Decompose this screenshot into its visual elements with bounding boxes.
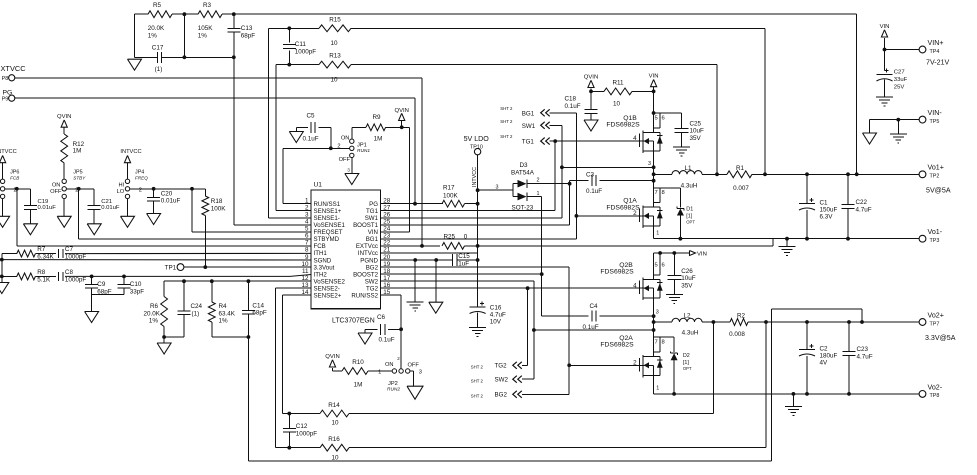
wire Vo2- rail bbox=[654, 392, 920, 396]
resistor R25 bbox=[442, 234, 468, 250]
wire R4 bottom to sense feed bbox=[212, 335, 251, 339]
capacitor C10 bbox=[118, 275, 145, 296]
resistor R4 bbox=[208, 279, 235, 337]
svg-text:0.007: 0.007 bbox=[733, 185, 749, 192]
svg-text:180uF: 180uF bbox=[820, 353, 838, 360]
svg-text:C15: C15 bbox=[458, 253, 470, 260]
svg-text:C25: C25 bbox=[690, 120, 702, 127]
svg-text:150uF: 150uF bbox=[820, 207, 838, 214]
wire C9 C10 bottoms bbox=[92, 295, 124, 312]
ground C25 bbox=[673, 147, 690, 156]
svg-text:TP5: TP5 bbox=[930, 119, 940, 125]
svg-text:0.1uF: 0.1uF bbox=[582, 324, 598, 331]
wire SW1 net bbox=[381, 125, 564, 218]
svg-text:R11: R11 bbox=[612, 79, 624, 86]
wire JP6 to FCB pin7 bbox=[5, 187, 311, 246]
svg-text:SHT 2: SHT 2 bbox=[471, 365, 484, 370]
wire PGND pin20 row bbox=[381, 258, 478, 262]
svg-text:Vo2+: Vo2+ bbox=[928, 311, 944, 319]
wire bottom border bbox=[248, 460, 771, 462]
wire Vo2+ rail bbox=[654, 320, 920, 324]
capacitor C18 bbox=[565, 96, 598, 121]
svg-text:C1: C1 bbox=[820, 200, 829, 207]
svg-text:SGND: SGND bbox=[314, 257, 332, 264]
svg-text:VIN: VIN bbox=[880, 24, 890, 30]
svg-text:RUN1: RUN1 bbox=[357, 148, 370, 154]
svg-text:[1]: [1] bbox=[686, 213, 692, 219]
svg-text:68pF: 68pF bbox=[252, 310, 267, 317]
svg-text:3: 3 bbox=[419, 370, 422, 376]
transistor Q1B FDS6982S bbox=[606, 113, 664, 153]
wire INTVCC to D3 bbox=[478, 184, 513, 190]
svg-text:SENSE1-: SENSE1- bbox=[314, 215, 340, 222]
svg-text:7: 7 bbox=[655, 190, 658, 196]
wire R15 to SENSE1- pin3 bbox=[269, 28, 311, 218]
svg-text:1: 1 bbox=[656, 230, 659, 236]
jumper JP5 bbox=[50, 170, 86, 199]
svg-text:ON: ON bbox=[52, 183, 61, 189]
svg-text:SHT 2: SHT 2 bbox=[500, 134, 513, 139]
svg-text:68pF: 68pF bbox=[241, 32, 256, 39]
wire top rail to Vo1+ bbox=[855, 14, 859, 176]
capacitor C13 bbox=[227, 12, 255, 59]
svg-text:C7: C7 bbox=[65, 246, 74, 253]
svg-text:R17: R17 bbox=[443, 184, 455, 191]
ground C26 bbox=[666, 295, 683, 304]
wire VIN- to TP5 bbox=[870, 118, 920, 122]
svg-text:0.1uF: 0.1uF bbox=[565, 103, 581, 110]
svg-text:SHT 2: SHT 2 bbox=[471, 393, 484, 398]
capacitor C15 bbox=[452, 253, 470, 268]
svg-text:SENSE2-: SENSE2- bbox=[314, 285, 340, 292]
svg-text:0.01uF: 0.01uF bbox=[161, 198, 181, 205]
ground C18 bbox=[584, 120, 598, 131]
svg-text:2: 2 bbox=[397, 356, 400, 361]
svg-text:R1: R1 bbox=[736, 165, 745, 172]
svg-text:1%: 1% bbox=[198, 32, 208, 39]
svg-text:Vo1+: Vo1+ bbox=[928, 164, 944, 172]
wire QVIN to VIN pin24 bbox=[381, 127, 410, 232]
svg-text:SHT 2: SHT 2 bbox=[500, 106, 513, 111]
svg-text:C23: C23 bbox=[857, 346, 869, 353]
svg-text:R25: R25 bbox=[444, 234, 456, 241]
svg-text:3: 3 bbox=[496, 184, 499, 190]
svg-text:D3: D3 bbox=[520, 162, 529, 169]
svg-text:OPT: OPT bbox=[683, 366, 692, 371]
svg-text:BG1: BG1 bbox=[366, 236, 379, 243]
svg-text:1000pF: 1000pF bbox=[296, 431, 318, 438]
svg-text:C13: C13 bbox=[241, 25, 253, 32]
svg-text:RUN2: RUN2 bbox=[387, 387, 400, 393]
svg-text:C2: C2 bbox=[820, 346, 829, 353]
node QVIN flag R9 bbox=[394, 108, 408, 129]
svg-text:STBY: STBY bbox=[73, 176, 86, 181]
svg-text:VoSENSE2: VoSENSE2 bbox=[314, 278, 346, 285]
svg-text:0.01uF: 0.01uF bbox=[101, 205, 120, 211]
svg-text:R15: R15 bbox=[329, 16, 341, 23]
svg-text:(1): (1) bbox=[155, 66, 163, 73]
wire INTVcc pin21 row bbox=[381, 252, 478, 254]
resistor R2 bbox=[729, 313, 748, 338]
svg-text:C3: C3 bbox=[586, 172, 595, 179]
wire Q2A gate line bbox=[569, 364, 642, 366]
svg-text:SW1: SW1 bbox=[522, 123, 536, 130]
resistor R3 bbox=[198, 2, 222, 39]
svg-text:10: 10 bbox=[331, 454, 339, 461]
wire VoSENSE1 to pin4 bbox=[234, 57, 311, 225]
wire BG1 net bbox=[381, 113, 579, 239]
svg-text:FDS6982S: FDS6982S bbox=[600, 269, 634, 276]
svg-text:R7: R7 bbox=[37, 246, 46, 253]
svg-text:ITH1: ITH1 bbox=[314, 250, 328, 257]
resistor R18 bbox=[202, 189, 226, 269]
svg-text:10: 10 bbox=[301, 261, 309, 268]
svg-text:FREQSET: FREQSET bbox=[314, 229, 343, 236]
capacitor C12 bbox=[283, 414, 318, 448]
svg-text:4: 4 bbox=[633, 282, 637, 289]
ground JP1 bbox=[345, 158, 359, 185]
svg-text:5.1K: 5.1K bbox=[37, 277, 51, 284]
resistor R10 bbox=[342, 359, 392, 388]
svg-text:JP1: JP1 bbox=[357, 142, 367, 148]
svg-text:Vo1-: Vo1- bbox=[928, 228, 943, 236]
wire JP1 to R9 bbox=[352, 127, 366, 139]
wire SENSE1 filter R13 row bbox=[276, 64, 717, 66]
svg-text:7V-21V: 7V-21V bbox=[926, 58, 950, 66]
ground C16 bbox=[469, 328, 486, 337]
svg-text:VIN: VIN bbox=[368, 229, 378, 236]
svg-text:1M: 1M bbox=[374, 135, 383, 142]
svg-text:D2: D2 bbox=[683, 353, 690, 359]
svg-text:R13: R13 bbox=[329, 53, 341, 60]
svg-text:LO: LO bbox=[117, 189, 125, 195]
inductor L2 bbox=[672, 313, 702, 337]
svg-text:[1]: [1] bbox=[683, 360, 689, 366]
svg-text:HI: HI bbox=[119, 183, 125, 189]
capacitor C21 bbox=[88, 189, 120, 224]
svg-text:RUN/SS1: RUN/SS1 bbox=[314, 201, 341, 208]
node R5-R3 junction bbox=[183, 12, 187, 59]
node VIN flag right bbox=[880, 24, 890, 71]
svg-text:R5: R5 bbox=[153, 2, 162, 9]
svg-text:PG: PG bbox=[369, 201, 378, 208]
svg-text:FCB: FCB bbox=[10, 176, 19, 181]
svg-text:0.1uF: 0.1uF bbox=[303, 136, 319, 143]
svg-text:1: 1 bbox=[378, 369, 381, 375]
node INTVCC flag JP4 bbox=[120, 149, 141, 179]
wire SENSE2- pin13 to R16 bbox=[276, 288, 766, 449]
wire SW2 tap to node bbox=[534, 328, 656, 332]
svg-text:10uF: 10uF bbox=[681, 275, 696, 282]
svg-text:1000pF: 1000pF bbox=[295, 48, 317, 55]
wire SENSE2+ R14 row bbox=[283, 295, 714, 415]
svg-text:ON: ON bbox=[385, 362, 394, 368]
wire VoSENSE2 pin12 row bbox=[164, 280, 311, 282]
svg-text:QVIN: QVIN bbox=[325, 354, 339, 360]
svg-text:PGND: PGND bbox=[360, 257, 378, 264]
capacitor C1 bbox=[799, 174, 838, 238]
wire TG2 pin16 gate line bbox=[381, 286, 643, 290]
resistor R16 bbox=[320, 436, 349, 461]
svg-text:FCB: FCB bbox=[314, 243, 326, 250]
jumper JP1 bbox=[337, 135, 370, 163]
capacitor C23 bbox=[843, 322, 873, 394]
wire JP2 off to ground bbox=[410, 371, 414, 386]
svg-text:LTC3707EGN: LTC3707EGN bbox=[332, 317, 375, 324]
svg-text:OPT: OPT bbox=[686, 220, 695, 225]
testpoint TP7 Vo2+ bbox=[919, 311, 956, 342]
svg-text:1M: 1M bbox=[354, 382, 363, 389]
svg-text:C26: C26 bbox=[681, 268, 693, 275]
svg-text:OFF: OFF bbox=[408, 362, 420, 368]
svg-text:3: 3 bbox=[656, 310, 659, 316]
op-amp U1 LTC3707EGN bbox=[301, 182, 390, 325]
svg-text:C5: C5 bbox=[307, 112, 316, 119]
resistor R12 bbox=[61, 134, 85, 179]
svg-text:3.3V@5A: 3.3V@5A bbox=[925, 334, 956, 342]
svg-text:3: 3 bbox=[648, 161, 651, 167]
wire C3 row bbox=[570, 179, 656, 183]
svg-text:R14: R14 bbox=[328, 402, 340, 409]
capacitor C5 bbox=[296, 112, 331, 148]
diode D1 bbox=[654, 188, 696, 241]
svg-text:2: 2 bbox=[139, 187, 142, 193]
wire BG2 pin19 net bbox=[381, 267, 571, 394]
svg-text:BAT54A: BAT54A bbox=[511, 170, 535, 177]
svg-text:TP10: TP10 bbox=[470, 145, 483, 151]
svg-text:7: 7 bbox=[655, 340, 658, 346]
wire Q2B drain row VIN flag bbox=[654, 251, 690, 255]
jumper JP6 bbox=[0, 170, 19, 199]
svg-text:SHT 2: SHT 2 bbox=[500, 119, 513, 124]
wire Vo1- rail bbox=[654, 237, 920, 241]
ground VIN- hatched bbox=[890, 120, 907, 143]
svg-text:3: 3 bbox=[305, 212, 309, 219]
wire TG1 gate line bbox=[550, 139, 643, 143]
svg-text:BG2: BG2 bbox=[366, 264, 379, 271]
wire Q1A gate line bbox=[576, 215, 642, 217]
wire VIN+ to TP4 bbox=[885, 49, 920, 51]
svg-text:7: 7 bbox=[305, 240, 309, 247]
wire XTVCC to EXTVcc pin22 bbox=[15, 78, 424, 248]
svg-text:TP1: TP1 bbox=[165, 265, 177, 272]
svg-text:FDS6982S: FDS6982S bbox=[606, 122, 640, 129]
wire JP4 to FREQSET pin5 bbox=[130, 187, 311, 232]
node SHT2 SW1 arrow bbox=[500, 119, 549, 130]
transistor Q1A FDS6982S bbox=[606, 188, 664, 228]
ground JP2 bbox=[407, 386, 423, 399]
capacitor C11 bbox=[283, 26, 317, 66]
capacitor C19 bbox=[24, 189, 56, 224]
svg-text:6: 6 bbox=[305, 233, 309, 240]
svg-text:R9: R9 bbox=[372, 114, 381, 121]
svg-text:C24: C24 bbox=[191, 303, 203, 310]
svg-text:C17: C17 bbox=[152, 44, 164, 51]
transistor Q2B FDS6982S bbox=[600, 253, 664, 300]
jumper JP4 bbox=[117, 170, 149, 199]
svg-text:SW2: SW2 bbox=[495, 377, 509, 384]
ground C27 bbox=[876, 97, 893, 106]
testpoint P8 bbox=[2, 75, 15, 82]
svg-text:L2: L2 bbox=[683, 313, 691, 320]
node SHT2 BG1 arrow bbox=[500, 106, 549, 117]
node INTVCC vertical label bbox=[472, 167, 478, 187]
svg-text:5V LDO: 5V LDO bbox=[464, 135, 490, 143]
ground C5 bbox=[289, 127, 303, 142]
svg-text:6: 6 bbox=[662, 115, 665, 121]
svg-text:QVIN: QVIN bbox=[584, 74, 598, 80]
svg-text:SW1: SW1 bbox=[365, 215, 379, 222]
svg-text:C10: C10 bbox=[130, 281, 142, 288]
wire SW1 tap to node bbox=[562, 165, 656, 169]
resistor R8 bbox=[17, 269, 51, 284]
wire Vo2+ sense bridge bbox=[772, 309, 863, 461]
svg-text:D1: D1 bbox=[686, 207, 693, 213]
resistor R5 bbox=[148, 2, 172, 39]
svg-text:P9: P9 bbox=[2, 97, 9, 103]
svg-text:35V: 35V bbox=[681, 283, 693, 290]
ground JP6 bbox=[0, 199, 10, 228]
resistor R13 bbox=[319, 53, 351, 84]
svg-text:20.0K: 20.0K bbox=[148, 25, 165, 32]
ground Vo2- hatched bbox=[785, 394, 802, 415]
node QVIN flag R11 bbox=[584, 74, 598, 109]
svg-text:EXTVcc: EXTVcc bbox=[356, 243, 378, 250]
svg-text:4.7uF: 4.7uF bbox=[490, 311, 506, 318]
svg-text:Vo2-: Vo2- bbox=[928, 383, 943, 391]
ground C21 bbox=[87, 224, 101, 235]
svg-text:OFF: OFF bbox=[339, 157, 351, 163]
svg-text:U1: U1 bbox=[314, 182, 323, 189]
wire Q2A source to rail bbox=[654, 375, 660, 394]
svg-text:C14: C14 bbox=[252, 302, 264, 309]
svg-text:C16: C16 bbox=[490, 304, 502, 311]
svg-text:INTVCC: INTVCC bbox=[0, 149, 17, 155]
capacitor C25 bbox=[675, 113, 704, 147]
capacitor C22 bbox=[842, 174, 872, 238]
wire R15 to sense node right bbox=[763, 28, 767, 176]
wire C4 row bbox=[542, 314, 656, 318]
node QVIN flag JP5 bbox=[57, 114, 71, 134]
wire SW2 node column bbox=[652, 298, 659, 352]
wire D3 pin1 to BOOST2 bbox=[527, 197, 544, 317]
ground JP5 bbox=[57, 199, 71, 228]
svg-text:1: 1 bbox=[656, 386, 659, 392]
svg-text:20.0K: 20.0K bbox=[144, 310, 161, 317]
ground C20 bbox=[147, 214, 161, 225]
svg-text:BG2: BG2 bbox=[495, 392, 508, 399]
svg-text:3: 3 bbox=[347, 168, 350, 173]
node INTVCC flag JP6 bbox=[0, 149, 17, 179]
testpoint TP10 5V LDO bbox=[464, 135, 490, 155]
svg-text:6: 6 bbox=[662, 262, 665, 268]
node QVIN flag JP2 bbox=[325, 354, 342, 371]
ground C6 bbox=[358, 329, 372, 344]
svg-text:C11: C11 bbox=[295, 41, 307, 48]
wire SENSE1 filter R15 row bbox=[269, 27, 765, 29]
wire BOOST1 net bbox=[381, 181, 570, 225]
svg-text:R6: R6 bbox=[150, 303, 159, 310]
svg-text:TP2: TP2 bbox=[930, 174, 940, 180]
capacitor C26 bbox=[667, 253, 695, 295]
svg-text:Q1A: Q1A bbox=[623, 197, 637, 204]
svg-text:TP8: TP8 bbox=[930, 393, 940, 399]
svg-text:C27: C27 bbox=[894, 70, 905, 76]
resistor R1 bbox=[727, 165, 752, 192]
svg-text:VIN: VIN bbox=[697, 252, 707, 258]
svg-text:C20: C20 bbox=[161, 190, 173, 197]
svg-text:4.3uH: 4.3uH bbox=[682, 330, 699, 337]
svg-text:C9: C9 bbox=[97, 281, 106, 288]
capacitor C7 bbox=[58, 246, 86, 261]
svg-text:P8: P8 bbox=[2, 76, 9, 82]
svg-text:6.3V: 6.3V bbox=[820, 214, 834, 221]
svg-text:1M: 1M bbox=[73, 147, 82, 154]
svg-text:SENSE1+: SENSE1+ bbox=[314, 208, 342, 215]
ground C9 C10 bbox=[85, 312, 99, 323]
capacitor C14 bbox=[242, 279, 267, 460]
wire SW1 node column bbox=[648, 151, 655, 205]
svg-text:100K: 100K bbox=[211, 206, 227, 213]
ground PGND hatched bbox=[407, 260, 424, 311]
svg-text:0.1uF: 0.1uF bbox=[586, 188, 602, 195]
svg-text:R8: R8 bbox=[37, 269, 46, 276]
wire TG2 tap bbox=[522, 288, 528, 365]
testpoint TP1 bbox=[165, 264, 184, 272]
svg-text:2: 2 bbox=[537, 178, 540, 184]
capacitor C9 bbox=[85, 275, 112, 296]
svg-text:VIN+: VIN+ bbox=[928, 39, 944, 47]
svg-text:1%: 1% bbox=[149, 318, 159, 325]
wire INTVCC column bbox=[476, 155, 480, 307]
resistor R17 bbox=[442, 184, 465, 207]
svg-text:(1): (1) bbox=[192, 311, 200, 318]
resistor R14 bbox=[320, 402, 349, 427]
svg-text:8: 8 bbox=[662, 340, 665, 346]
svg-text:4.3uH: 4.3uH bbox=[681, 183, 698, 190]
node SHT2 TG1 arrow bbox=[500, 134, 549, 146]
svg-text:33uF: 33uF bbox=[894, 77, 908, 83]
svg-text:R16: R16 bbox=[328, 436, 340, 443]
svg-text:XTVCC: XTVCC bbox=[1, 64, 27, 73]
svg-text:4V: 4V bbox=[820, 360, 829, 367]
svg-text:2: 2 bbox=[305, 205, 309, 212]
svg-text:OFF: OFF bbox=[50, 189, 62, 195]
svg-text:10: 10 bbox=[330, 40, 338, 47]
node VIN flag top bbox=[649, 74, 659, 115]
capacitor C24 bbox=[178, 279, 203, 337]
svg-text:JP2: JP2 bbox=[388, 381, 398, 387]
svg-text:TP7: TP7 bbox=[930, 321, 940, 327]
resistor R9 bbox=[366, 114, 409, 142]
svg-text:SW2: SW2 bbox=[365, 278, 379, 285]
capacitor C2 bbox=[799, 322, 838, 394]
svg-text:0.008: 0.008 bbox=[729, 331, 745, 338]
testpoint TP8 Vo2- bbox=[919, 383, 943, 399]
wire Vo1+ rail bbox=[654, 172, 920, 176]
capacitor C8 bbox=[58, 269, 86, 284]
node SHT2 SW2 arrow bbox=[471, 376, 522, 384]
ground JP4 bbox=[121, 199, 135, 228]
wire ITH1 row R7 bbox=[2, 252, 311, 254]
node SHT2 BG2 arrow bbox=[471, 391, 522, 399]
wire EXTVcc pin22 row bbox=[381, 239, 773, 246]
wire RUN/SS1 pin1 bbox=[283, 146, 350, 203]
wire D3 pin2 to BOOST1 bbox=[527, 182, 572, 186]
wire R6 C24 bottoms bbox=[162, 335, 184, 339]
node VIN flag ch2 bbox=[690, 251, 707, 258]
ground R6 bbox=[157, 337, 171, 354]
